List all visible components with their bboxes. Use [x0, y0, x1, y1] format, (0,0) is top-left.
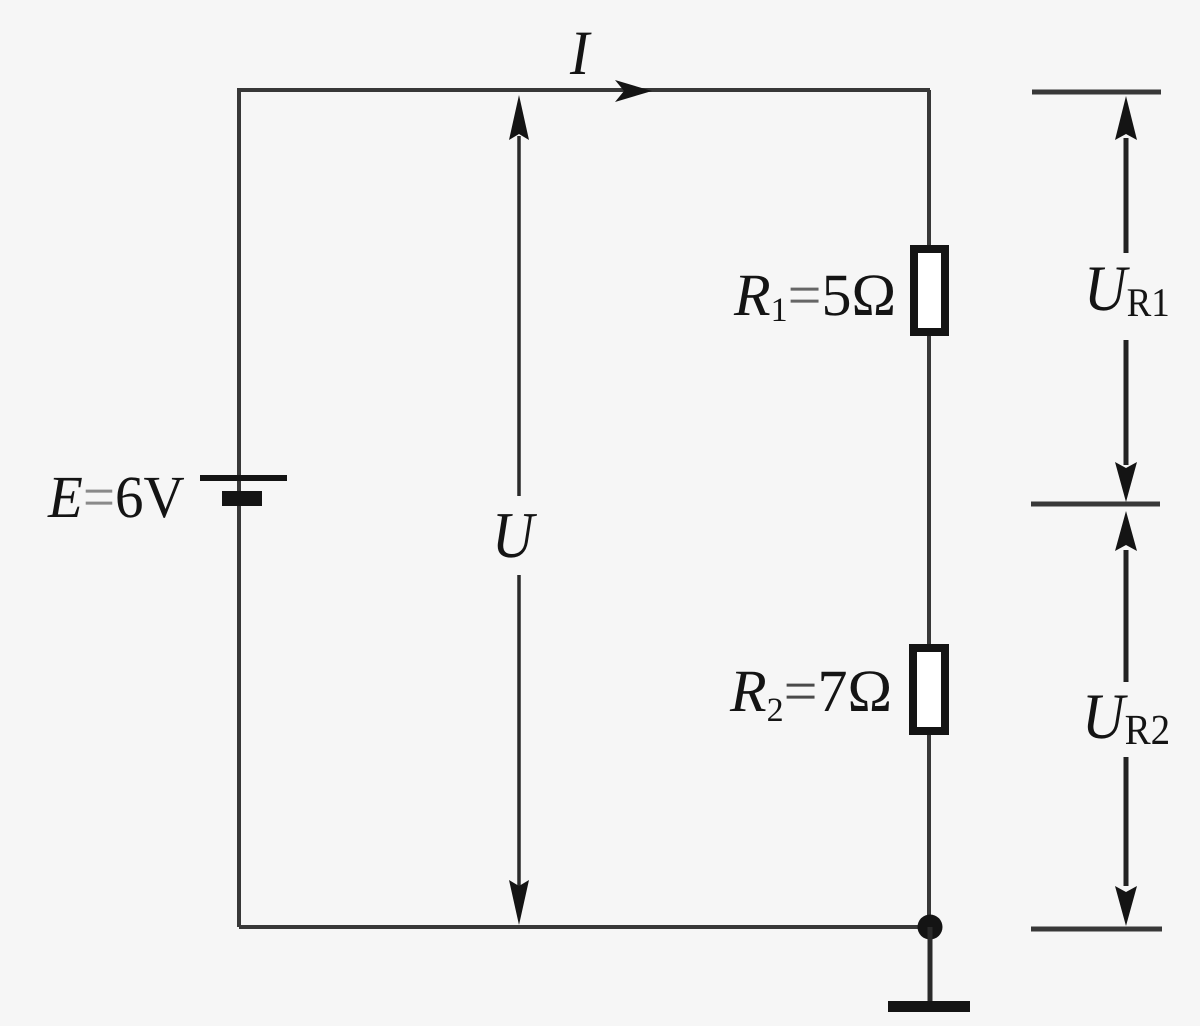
- svg-text:I: I: [569, 17, 592, 88]
- svg-text:E=6V: E=6V: [47, 465, 185, 531]
- svg-text:U: U: [492, 498, 538, 571]
- svg-text:R2=7Ω: R2=7Ω: [729, 658, 892, 729]
- svg-text:R1=5Ω: R1=5Ω: [733, 262, 896, 329]
